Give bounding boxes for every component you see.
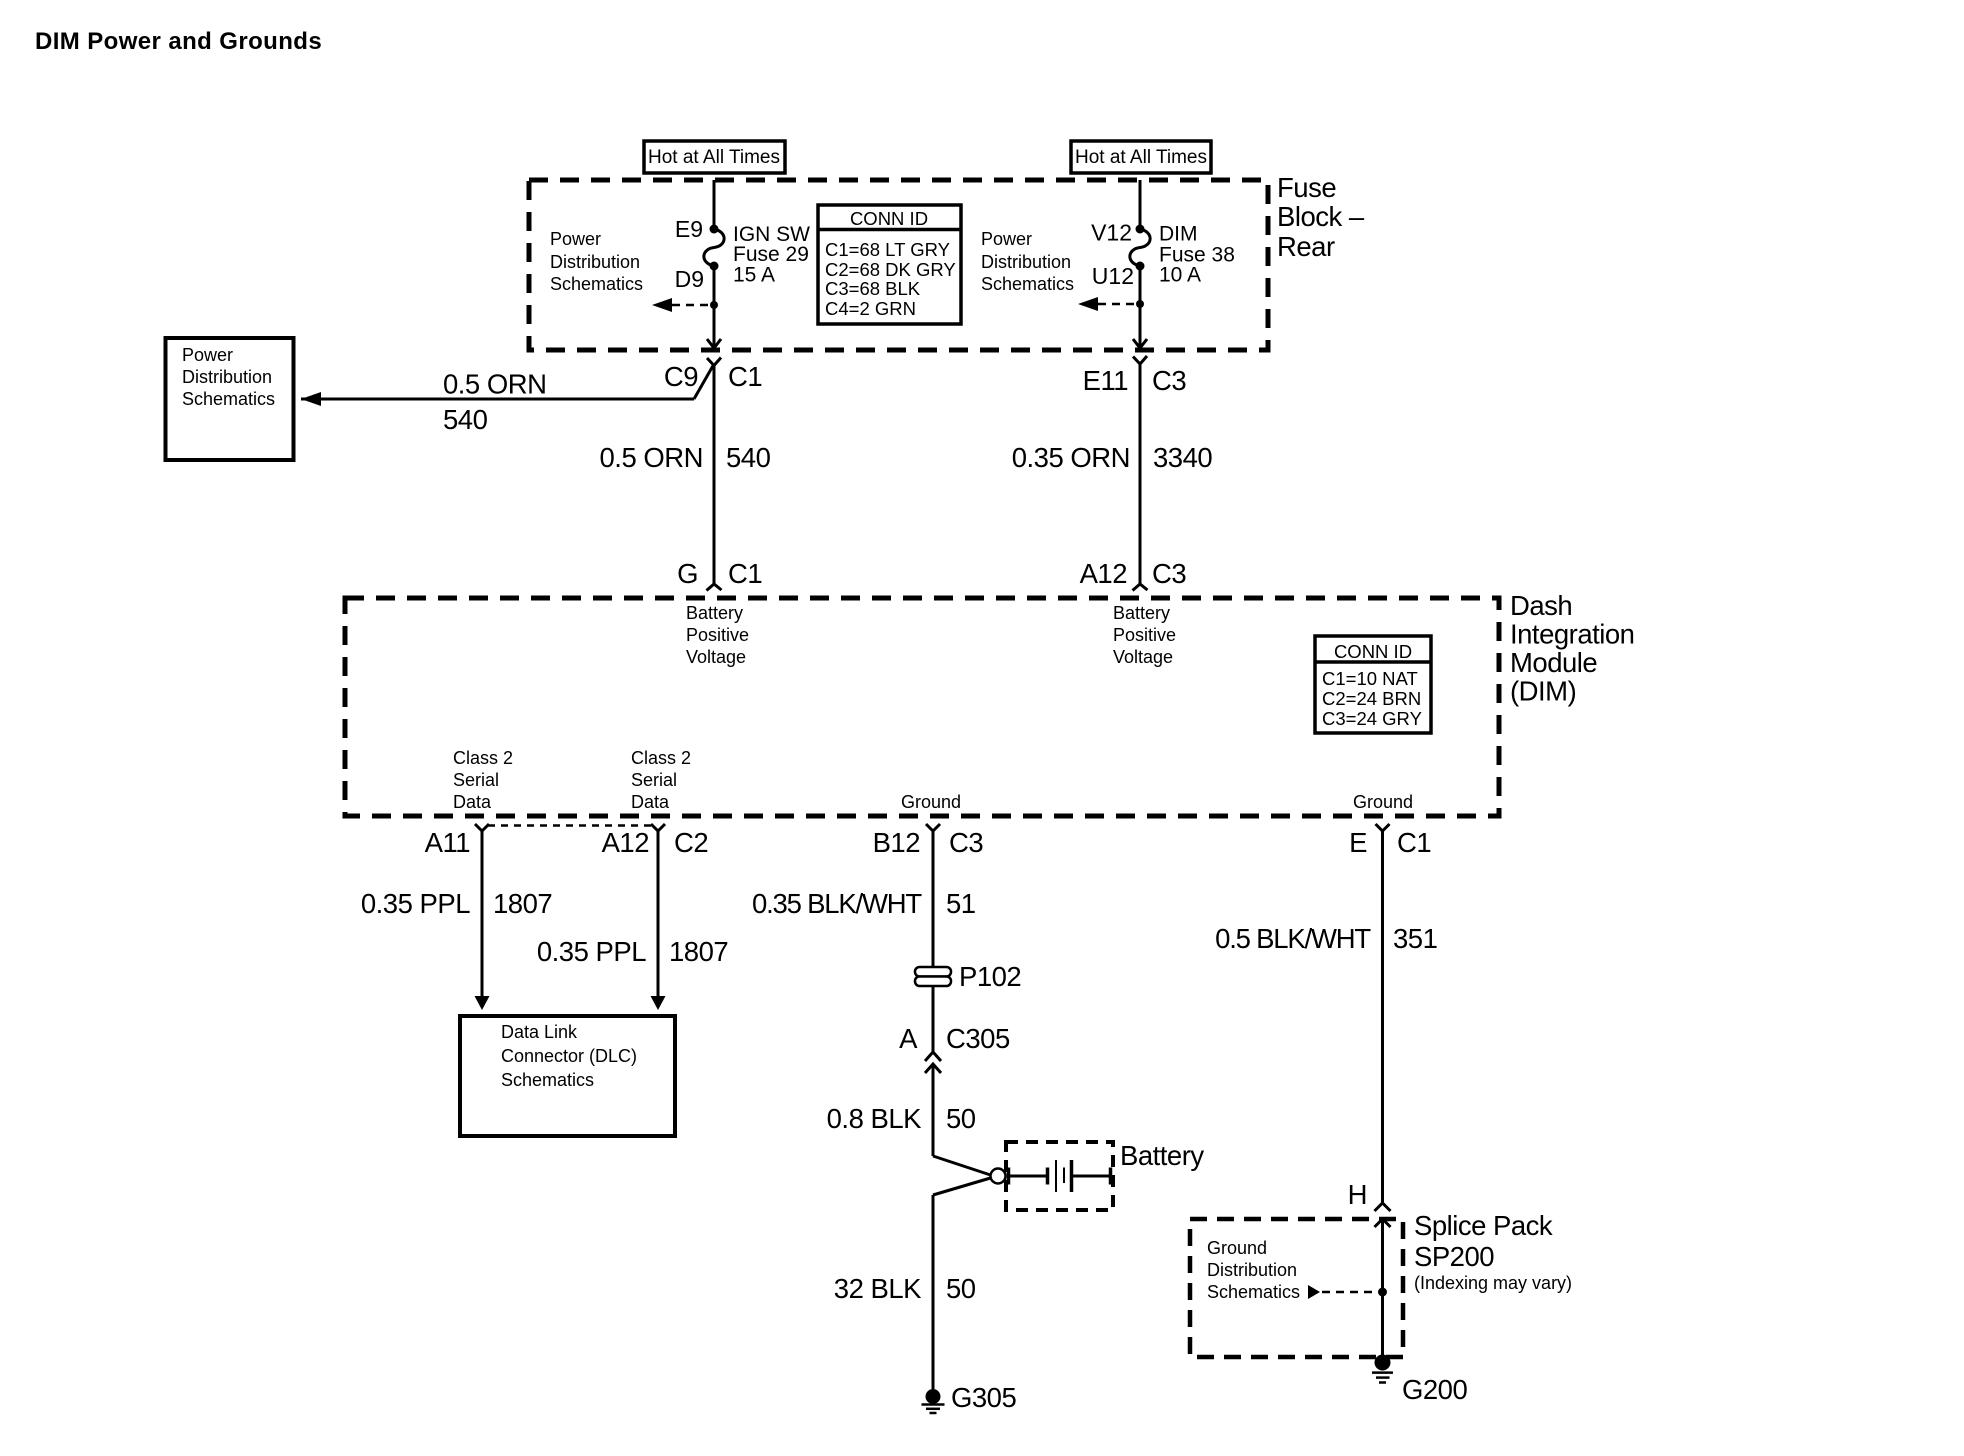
svg-text:Data: Data	[631, 792, 670, 812]
svg-text:C2: C2	[674, 827, 708, 858]
svg-text:Schematics: Schematics	[501, 1070, 594, 1090]
svg-text:Ground: Ground	[1353, 792, 1413, 812]
svg-text:Positive: Positive	[686, 625, 749, 645]
svg-text:50: 50	[946, 1273, 976, 1304]
svg-text:Serial: Serial	[453, 770, 499, 790]
svg-text:Integration: Integration	[1510, 619, 1634, 650]
svg-text:A12: A12	[1080, 558, 1127, 589]
svg-text:Module: Module	[1510, 647, 1597, 678]
svg-text:Block –: Block –	[1277, 201, 1365, 232]
svg-text:P102: P102	[959, 961, 1021, 992]
svg-text:C305: C305	[946, 1023, 1010, 1054]
svg-text:C1=68 LT GRY: C1=68 LT GRY	[825, 239, 950, 260]
svg-text:C1: C1	[728, 361, 762, 392]
svg-text:Schematics: Schematics	[182, 389, 275, 409]
svg-text:51: 51	[946, 888, 976, 919]
svg-text:C1: C1	[728, 558, 762, 589]
svg-text:Ground: Ground	[901, 792, 961, 812]
svg-text:Class 2: Class 2	[453, 748, 513, 768]
svg-text:Ground: Ground	[1207, 1238, 1267, 1258]
svg-text:C1: C1	[1397, 827, 1431, 858]
svg-text:C3: C3	[1152, 558, 1186, 589]
svg-text:CONN ID: CONN ID	[1334, 641, 1412, 662]
svg-text:10 A: 10 A	[1159, 264, 1201, 287]
svg-text:3340: 3340	[1153, 442, 1212, 473]
svg-text:Distribution: Distribution	[550, 252, 640, 272]
svg-text:Fuse: Fuse	[1277, 172, 1336, 203]
svg-text:540: 540	[726, 442, 771, 473]
svg-text:Schematics: Schematics	[1207, 1282, 1300, 1302]
svg-text:Positive: Positive	[1113, 625, 1176, 645]
svg-text:32 BLK: 32 BLK	[834, 1273, 922, 1304]
svg-text:Battery: Battery	[1113, 603, 1170, 623]
svg-text:Splice Pack: Splice Pack	[1414, 1210, 1553, 1241]
svg-text:540: 540	[443, 404, 488, 435]
svg-text:Schematics: Schematics	[981, 274, 1074, 294]
svg-text:C3=68 BLK: C3=68 BLK	[825, 278, 921, 299]
svg-text:C1=10 NAT: C1=10 NAT	[1322, 668, 1418, 689]
svg-text:0.35 PPL: 0.35 PPL	[361, 888, 470, 919]
svg-text:E9: E9	[675, 216, 703, 242]
svg-text:Power: Power	[981, 229, 1032, 249]
svg-text:A12: A12	[602, 827, 649, 858]
svg-text:Connector (DLC): Connector (DLC)	[501, 1046, 637, 1066]
svg-text:0.5 BLK/WHT: 0.5 BLK/WHT	[1215, 923, 1371, 954]
svg-text:C4=2 GRN: C4=2 GRN	[825, 298, 916, 319]
svg-text:A: A	[899, 1023, 918, 1054]
svg-text:Schematics: Schematics	[550, 274, 643, 294]
svg-text:E: E	[1349, 827, 1367, 858]
svg-text:D9: D9	[675, 266, 704, 292]
svg-text:Class 2: Class 2	[631, 748, 691, 768]
svg-text:DIM: DIM	[1159, 223, 1198, 246]
svg-text:0.5 ORN: 0.5 ORN	[443, 369, 546, 400]
svg-text:Power: Power	[182, 345, 233, 365]
svg-text:G: G	[677, 558, 698, 589]
svg-text:C9: C9	[664, 361, 698, 392]
svg-text:DIM Power and Grounds: DIM Power and Grounds	[35, 28, 322, 55]
svg-text:Distribution: Distribution	[981, 252, 1071, 272]
svg-text:E11: E11	[1083, 365, 1128, 396]
svg-text:Distribution: Distribution	[182, 367, 272, 387]
svg-text:B12: B12	[873, 827, 920, 858]
svg-text:V12: V12	[1091, 220, 1132, 246]
svg-text:Distribution: Distribution	[1207, 1260, 1297, 1280]
svg-text:C3: C3	[1152, 365, 1186, 396]
svg-text:Voltage: Voltage	[1113, 647, 1173, 667]
svg-text:(DIM): (DIM)	[1510, 676, 1576, 707]
svg-text:351: 351	[1393, 923, 1437, 954]
svg-text:(Indexing may vary): (Indexing may vary)	[1414, 1273, 1572, 1293]
svg-text:H: H	[1348, 1179, 1367, 1210]
svg-text:0.35 PPL: 0.35 PPL	[537, 936, 646, 967]
svg-text:Hot at All Times: Hot at All Times	[648, 147, 780, 168]
svg-text:0.35 ORN: 0.35 ORN	[1012, 442, 1130, 473]
svg-text:C2=68 DK GRY: C2=68 DK GRY	[825, 259, 956, 280]
svg-text:0.8 BLK: 0.8 BLK	[827, 1103, 923, 1134]
svg-text:Voltage: Voltage	[686, 647, 746, 667]
svg-text:Data Link: Data Link	[501, 1022, 578, 1042]
svg-text:G200: G200	[1402, 1374, 1467, 1405]
svg-text:Dash: Dash	[1510, 590, 1572, 621]
svg-text:A11: A11	[425, 827, 470, 858]
svg-text:G305: G305	[951, 1382, 1016, 1413]
svg-text:Serial: Serial	[631, 770, 677, 790]
svg-text:C3: C3	[949, 827, 983, 858]
svg-text:C2=24 BRN: C2=24 BRN	[1322, 688, 1421, 709]
svg-text:Rear: Rear	[1277, 231, 1335, 262]
svg-text:Battery: Battery	[686, 603, 743, 623]
svg-text:Hot at All Times: Hot at All Times	[1075, 147, 1207, 168]
svg-text:Data: Data	[453, 792, 492, 812]
svg-text:Battery: Battery	[1120, 1140, 1204, 1171]
svg-text:0.5 ORN: 0.5 ORN	[600, 442, 703, 473]
svg-text:Power: Power	[550, 229, 601, 249]
svg-text:SP200: SP200	[1414, 1241, 1494, 1272]
svg-text:50: 50	[946, 1103, 976, 1134]
svg-text:0.35 BLK/WHT: 0.35 BLK/WHT	[752, 888, 922, 919]
svg-text:1807: 1807	[669, 936, 728, 967]
svg-text:1807: 1807	[493, 888, 552, 919]
svg-text:U12: U12	[1092, 263, 1134, 289]
svg-text:15 A: 15 A	[733, 264, 775, 287]
svg-text:C3=24 GRY: C3=24 GRY	[1322, 708, 1422, 729]
svg-text:CONN ID: CONN ID	[850, 208, 928, 229]
